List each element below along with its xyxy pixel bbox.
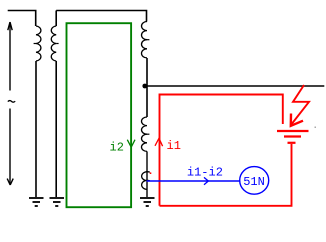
- svg-text:i2: i2: [110, 140, 124, 154]
- bus wire from junction to fault point: [147, 85, 324, 87]
- junction node dot: [142, 84, 147, 89]
- red current loop i1: from below fault ground to bottom edge: [160, 144, 292, 206]
- transformer T1 secondary winding: [51, 26, 56, 61]
- wire: T1 primary bottom to ground G1: [35, 61, 37, 197]
- CT coil (neutral current transformer): [142, 172, 150, 190]
- wire: top line A (source to T1 primary): [8, 11, 36, 27]
- grounding transformer winding L2: [141, 22, 147, 58]
- wire: top line B (T1 secondary to grounding transformer): [56, 11, 146, 22]
- red ground at fault: [277, 131, 309, 143]
- wire: T1 secondary bottom to ground G2: [55, 61, 57, 197]
- ground G2: [50, 198, 65, 206]
- wire: L2 bottom through junction down to L3: [146, 58, 148, 117]
- blue relay current wire: [147, 180, 240, 182]
- green current loop i2: [67, 23, 132, 207]
- ground G1: [29, 198, 44, 206]
- wire: T1 secondary top stub: [55, 11, 57, 27]
- blue arrow (right, mid wire): [204, 177, 208, 184]
- red polarity dot on CT: [150, 172, 152, 174]
- svg-text:i1-i2: i1-i2: [187, 165, 223, 179]
- relay 51N circle: [240, 167, 269, 195]
- green arrow i2 (down, on right edge of green loop): [127, 140, 135, 148]
- lightning bolt arrowhead: [291, 114, 303, 126]
- red current loop i1: left edge, top edge, drop to fault ground: [160, 95, 283, 206]
- lightning bolt fault symbol: [291, 85, 310, 126]
- ground G3: [140, 198, 155, 206]
- wire: L3 to CT: [146, 151, 148, 197]
- transformer T1 primary winding: [36, 26, 41, 61]
- red arrow i1 (up, on left edge of red loop): [155, 138, 163, 146]
- svg-text:i1: i1: [167, 139, 181, 153]
- source voltage arrow with ~ (AC phase indicator): [7, 22, 13, 185]
- winding L3 (secondary of grounding transformer): [142, 117, 148, 151]
- svg-text:51N: 51N: [243, 175, 265, 189]
- stray gray dot artifact: [315, 127, 317, 129]
